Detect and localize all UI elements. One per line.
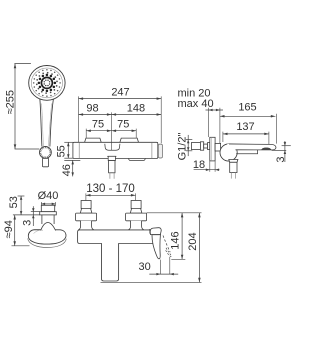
dim 3 label	[275, 157, 287, 163]
svg-text:137: 137	[236, 121, 254, 133]
extension centerline	[111, 112, 113, 150]
ext D40 right	[55, 202, 57, 206]
shower handle	[40, 99, 54, 147]
dim 55 label	[55, 145, 67, 157]
svg-text:204: 204	[187, 232, 199, 250]
dim 3 tick top	[282, 145, 291, 147]
holder top ext line	[13, 214, 40, 216]
svg-text:53: 53	[8, 196, 20, 208]
top view hose connector	[107, 156, 116, 179]
dim 98 label	[86, 102, 98, 114]
dim 247 label	[111, 86, 129, 98]
ext 130-170 left	[85, 193, 87, 200]
dim 137 line	[223, 133, 269, 136]
svg-text:46: 46	[61, 164, 73, 176]
ext wall face	[219, 108, 221, 144]
svg-text:98: 98	[86, 102, 98, 114]
dim 255 extension bottom	[15, 148, 40, 150]
dim 94 label	[3, 220, 15, 238]
svg-text:max 40: max 40	[178, 98, 214, 110]
dim 98/148 line	[79, 113, 162, 116]
svg-text:≈255: ≈255	[4, 90, 16, 114]
ext 18 right	[214, 161, 216, 172]
dim 148 label	[127, 102, 145, 114]
svg-text:3: 3	[21, 220, 33, 226]
side aerator	[261, 148, 271, 150]
svg-text:G1/2": G1/2"	[177, 133, 189, 161]
svg-text:165: 165	[238, 102, 256, 114]
ext D40 left	[40, 202, 42, 206]
top view handle bump left	[85, 138, 102, 142]
holder brim	[28, 230, 66, 244]
ext min/max left	[208, 108, 210, 137]
side tail neck	[204, 144, 208, 148]
top view body bar	[73, 142, 158, 158]
front neck left	[78, 221, 93, 230]
dim 75 left label	[92, 119, 104, 131]
dim 30 label	[138, 261, 150, 273]
dim 146 label	[169, 231, 181, 249]
svg-text:75: 75	[117, 119, 129, 131]
front thread right	[131, 201, 141, 209]
shower ball joint	[40, 147, 52, 159]
side tail pipe	[191, 143, 200, 150]
side neck	[215, 143, 221, 151]
svg-text:247: 247	[111, 86, 129, 98]
dim 204 line	[198, 213, 201, 283]
dim 137 label	[236, 121, 254, 133]
extension 75 left	[85, 129, 87, 138]
label min 20	[178, 87, 211, 99]
top view handle bump right	[120, 138, 139, 142]
dim 53 tick	[18, 195, 25, 197]
dim G1/2	[186, 135, 192, 156]
holder neck lower	[42, 215, 54, 224]
dim 53 line	[20, 196, 23, 215]
holder neck	[40, 205, 57, 215]
dim 130-170 label	[86, 183, 135, 195]
dim 55 line	[67, 142, 70, 158]
dim 3 line	[284, 141, 287, 162]
top view lip under bar	[128, 159, 145, 161]
svg-text:55: 55	[55, 145, 67, 157]
extension line left	[78, 96, 80, 142]
dim 46 label	[61, 164, 73, 176]
front nut right	[130, 208, 142, 213]
ext 18 left	[209, 161, 211, 172]
svg-text:148: 148	[127, 102, 145, 114]
dim 46 line	[71, 160, 74, 176]
svg-text:30: 30	[138, 261, 150, 273]
dim 3 holder label	[21, 220, 33, 226]
dim 130-170 line	[86, 194, 136, 197]
dim 146 line	[181, 213, 184, 259]
svg-text:≈94: ≈94	[3, 220, 15, 238]
holder base lens	[28, 230, 67, 247]
dim 247 line	[79, 97, 162, 100]
ext 137 left	[222, 132, 224, 142]
ext top reference	[147, 212, 202, 214]
dim 255 line	[14, 64, 17, 149]
dim 46 tick	[64, 159, 80, 161]
ext 146 bottom	[171, 258, 185, 260]
front escutcheon left	[76, 213, 97, 221]
holder hump	[41, 222, 56, 230]
front lever dashed position	[163, 236, 171, 257]
dim 55 ticks	[64, 142, 73, 158]
dim 204 label	[187, 232, 199, 250]
dim 165 label	[238, 102, 256, 114]
extension 75 right	[135, 129, 137, 138]
ext 204 bottom	[101, 281, 202, 283]
ext 30 left	[159, 260, 161, 275]
front neck right	[128, 221, 143, 230]
dim 165 line	[220, 115, 276, 118]
front thread left	[81, 201, 91, 209]
shower nipple	[42, 158, 48, 167]
label G1/2	[177, 133, 189, 161]
extension line right	[160, 96, 162, 143]
dim 255 extension top	[14, 63, 31, 65]
ext 30 right	[169, 257, 171, 274]
top view end cap	[158, 144, 162, 158]
side body	[220, 144, 237, 161]
ext 165 right	[276, 114, 278, 144]
dim 18 label	[193, 159, 205, 171]
dim 3 ext bottom	[272, 149, 287, 151]
side escutcheon	[210, 137, 215, 161]
dim 3 holder line	[32, 206, 35, 226]
dim 75 right label	[117, 119, 129, 131]
top view diverter bowl	[105, 142, 120, 150]
dim 94 tick	[12, 245, 30, 247]
dim 30 line	[149, 273, 178, 276]
svg-text:18: 18	[193, 159, 205, 171]
shower head face	[29, 66, 65, 101]
dim min/max line	[206, 109, 224, 112]
label max 40	[178, 98, 214, 110]
svg-text:130 - 170: 130 - 170	[86, 183, 135, 195]
dim 75/75 line	[86, 129, 136, 132]
svg-text:146: 146	[169, 231, 181, 249]
svg-text:3: 3	[275, 157, 287, 163]
ext 130-170 right	[135, 193, 137, 200]
ext 137 right	[268, 132, 270, 147]
front nut left	[80, 208, 92, 213]
side spout	[227, 144, 276, 154]
svg-text:Ø40: Ø40	[38, 190, 59, 202]
dim 94 line	[13, 215, 16, 246]
dim 53 label	[8, 196, 20, 208]
dim 3 holder tick	[31, 211, 40, 213]
dim 18 line	[194, 168, 220, 171]
front body outline	[78, 230, 155, 281]
front lever knob	[150, 228, 161, 235]
dim D40 label	[38, 190, 59, 202]
side hose connector	[229, 160, 238, 179]
side tail step	[208, 143, 210, 150]
dim 255 label	[4, 90, 16, 114]
front escutcheon right	[126, 213, 147, 221]
svg-text:75: 75	[92, 119, 104, 131]
front lever blade	[152, 235, 160, 259]
dim D40 line	[41, 203, 55, 206]
side tail cone	[200, 142, 203, 150]
